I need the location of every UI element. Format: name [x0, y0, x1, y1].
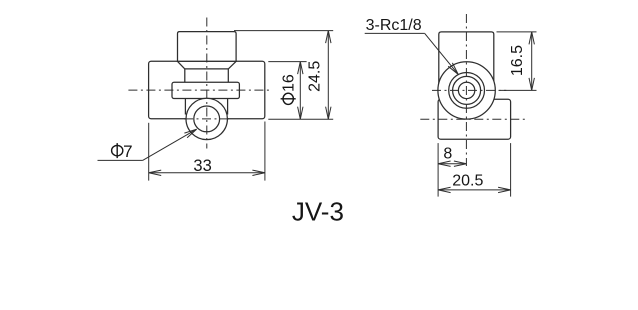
svg-text:33: 33 [193, 157, 211, 175]
svg-text:8: 8 [443, 145, 452, 162]
svg-text:3-Rc1/8: 3-Rc1/8 [366, 17, 422, 34]
svg-text:JV-3: JV-3 [292, 197, 344, 227]
svg-text:7: 7 [123, 142, 132, 161]
svg-text:16: 16 [281, 74, 298, 92]
svg-text:24.5: 24.5 [306, 61, 323, 92]
svg-text:16.5: 16.5 [509, 45, 526, 76]
svg-text:20.5: 20.5 [452, 173, 483, 190]
